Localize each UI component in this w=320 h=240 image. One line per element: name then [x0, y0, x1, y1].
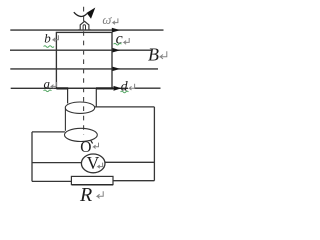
- svg-text:b: b: [44, 30, 51, 45]
- svg-text:B: B: [148, 45, 159, 65]
- svg-text:a: a: [44, 76, 51, 91]
- svg-text:ω: ω: [102, 13, 111, 27]
- svg-text:d: d: [121, 79, 129, 94]
- svg-text:V: V: [87, 153, 100, 173]
- svg-text:R: R: [79, 184, 92, 206]
